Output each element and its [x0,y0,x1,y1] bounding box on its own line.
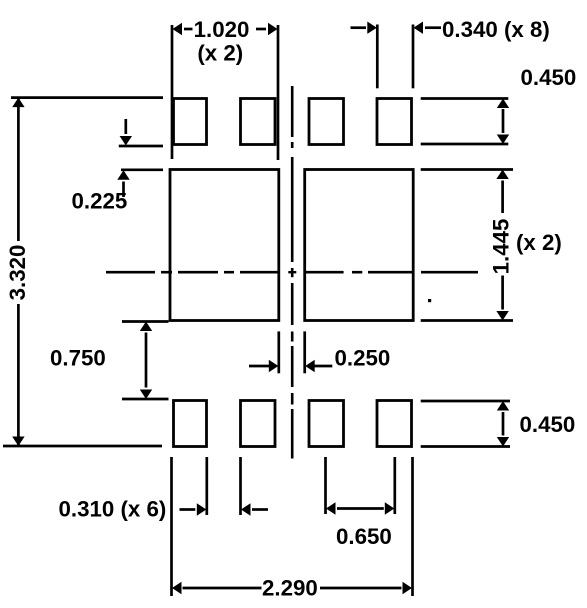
svg-text:0.450: 0.450 [520,412,576,437]
svg-text:0.250: 0.250 [335,346,391,371]
svg-text:0.450: 0.450 [521,65,577,90]
svg-text:(x 2): (x 2) [197,41,243,66]
svg-text:3.320: 3.320 [5,245,30,301]
svg-text:0.340 (x 8): 0.340 (x 8) [442,17,550,42]
svg-text:2.290: 2.290 [262,576,318,601]
svg-text:0.650: 0.650 [336,524,392,549]
svg-text:0.750: 0.750 [50,346,106,371]
svg-text:1.020: 1.020 [194,17,250,42]
svg-text:(x 2): (x 2) [516,230,562,255]
svg-text:0.225: 0.225 [72,189,128,214]
svg-text:1.445: 1.445 [489,219,514,275]
svg-text:0.310 (x 6): 0.310 (x 6) [59,497,167,522]
